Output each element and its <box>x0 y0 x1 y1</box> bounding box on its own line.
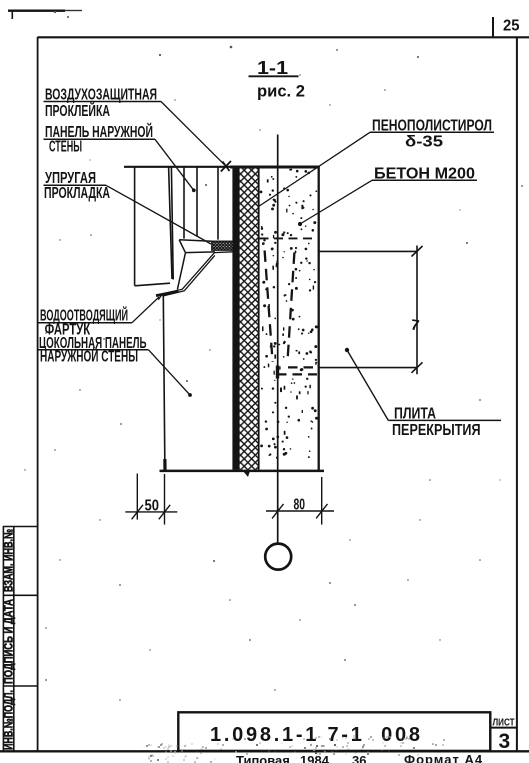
bottom cut-off stamp text <box>236 752 483 763</box>
label плита перекрытия <box>345 348 349 352</box>
dimension 50 <box>125 474 177 525</box>
panel bottom edge <box>135 283 170 286</box>
leader to air seal <box>161 102 226 167</box>
leader to gasket <box>106 185 211 244</box>
svg-text:25: 25 <box>503 18 520 35</box>
bottom edge line of assembly <box>160 470 325 473</box>
air seal black band <box>232 167 239 470</box>
svg-text:ПЛИТА: ПЛИТА <box>394 405 436 422</box>
svg-text:ВЗАМ. ИНВ.№: ВЗАМ. ИНВ.№ <box>1 529 15 592</box>
svg-text:ПРОКЛАДКА: ПРОКЛАДКА <box>44 185 110 202</box>
dimension 80 <box>266 477 334 525</box>
console sloped face <box>177 253 185 290</box>
svg-text:рис. 2: рис. 2 <box>257 82 305 101</box>
sheet number tick <box>492 17 494 37</box>
small tail below bottom line <box>243 471 250 477</box>
water-draining apron <box>158 252 233 300</box>
svg-text:ПРОКЛЕЙКА: ПРОКЛЕЙКА <box>45 101 110 120</box>
leader to concrete <box>300 180 372 224</box>
svg-text:НАРУЖНОЙ СТЕНЫ: НАРУЖНОЙ СТЕНЫ <box>40 347 138 366</box>
leader to apron <box>132 297 159 323</box>
svg-text:1-1: 1-1 <box>257 58 288 78</box>
leader to basement panel <box>149 350 191 395</box>
svg-text:1.098.1-1 7-1 008: 1.098.1-1 7-1 008 <box>210 724 420 746</box>
svg-text:δ-35: δ-35 <box>405 134 443 151</box>
svg-text:50: 50 <box>145 498 160 515</box>
dashed slab outline <box>260 238 318 374</box>
svg-text:СТЕНЫ: СТЕНЫ <box>49 139 82 156</box>
svg-text:1984: 1984 <box>300 753 330 763</box>
concrete right edge <box>318 167 320 471</box>
svg-text:Формат А4: Формат А4 <box>404 752 483 763</box>
top scan line <box>8 10 82 20</box>
axis circle <box>265 544 291 570</box>
insulation crosshatch band <box>240 167 259 470</box>
outer wall panel ribs <box>135 167 218 286</box>
top edge line of assembly <box>124 166 320 168</box>
apron thick end <box>156 291 179 295</box>
vertical centerline <box>277 135 279 544</box>
svg-text:36: 36 <box>352 753 366 763</box>
basement panel left edge <box>163 296 165 471</box>
leader to panel <box>155 139 194 190</box>
svg-text:ЛИСТ: ЛИСТ <box>493 718 515 729</box>
svg-text:7: 7 <box>410 317 421 335</box>
svg-text:Типовая: Типовая <box>236 753 290 763</box>
svg-text:3: 3 <box>499 730 511 753</box>
elastic gasket block <box>212 241 234 250</box>
x marker <box>221 161 231 172</box>
svg-text:ИНВ.№ПОДЛ.: ИНВ.№ПОДЛ. <box>1 690 15 750</box>
centerline thick blob at funnel bottom <box>276 366 279 379</box>
svg-text:ПОДПИСЬ И ДАТА: ПОДПИСЬ И ДАТА <box>1 599 15 684</box>
svg-text:80: 80 <box>294 497 306 514</box>
panel console ledge <box>179 240 215 253</box>
leader to insulation <box>259 132 370 206</box>
concrete stipple band <box>260 169 318 459</box>
svg-text:ПЕРЕКРЫТИЯ: ПЕРЕКРЫТИЯ <box>392 422 481 439</box>
right dimension bracket <box>319 246 423 375</box>
left stamp column boxes <box>3 526 38 752</box>
